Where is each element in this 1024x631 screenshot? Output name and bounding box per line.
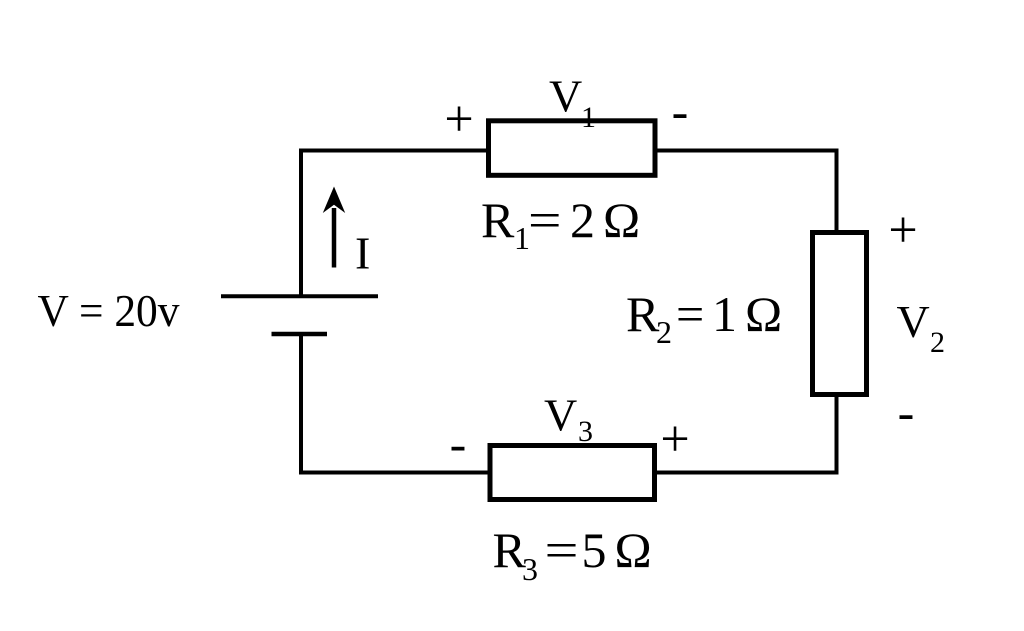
wire: left vertical upper (top wire down to battery + plate) (299, 149, 303, 297)
label: V1 (voltage across R1) (549, 71, 596, 135)
svg-text:Ω: Ω (615, 522, 652, 578)
svg-text:+: + (888, 202, 917, 259)
label: R3 = 5 ohm (493, 522, 652, 587)
svg-text:5: 5 (582, 522, 607, 578)
svg-text:I: I (355, 228, 370, 279)
svg-text:+: + (660, 411, 689, 468)
resistor R2 (right, 1 ohm) (813, 233, 867, 395)
svg-text:V = 20v: V = 20v (38, 285, 180, 336)
wire: right vertical lower (R2 down to bottom wire) (835, 396, 839, 475)
svg-text:V: V (544, 390, 577, 441)
svg-text:2: 2 (930, 326, 945, 359)
svg-text:Ω: Ω (603, 192, 640, 248)
label: V2 (voltage across R2) (897, 296, 946, 359)
resistor R1 (top, 2 ohm) (489, 121, 656, 176)
wire: bottom-left horizontal (battery bottom to R3) (299, 471, 491, 475)
svg-text:1: 1 (581, 101, 596, 134)
wire: right vertical upper (top wire down to R2) (835, 149, 839, 233)
svg-text:1: 1 (712, 286, 737, 342)
resistor R3 (bottom, 5 ohm) (490, 446, 655, 500)
svg-text:2: 2 (656, 314, 672, 350)
svg-text:-: - (898, 384, 915, 440)
wire: top-right horizontal (R1 to right branch) (654, 149, 839, 153)
svg-text:3: 3 (522, 551, 538, 587)
svg-text:-: - (450, 415, 467, 471)
svg-text:=: = (545, 522, 579, 578)
label: R1 = 2 ohm (481, 192, 640, 256)
wire: top-left horizontal (battery top to R1) (299, 149, 490, 153)
wire: bottom-right horizontal (R3 to right branch) (654, 471, 839, 475)
wire: left vertical lower (battery - plate down to bottom wire) (299, 334, 303, 475)
current arrow I (pointing up along left branch) (323, 187, 345, 268)
svg-text:2: 2 (570, 192, 595, 248)
svg-text:3: 3 (578, 415, 593, 448)
label: V3 (voltage across R3) (544, 390, 593, 449)
svg-text:+: + (444, 91, 473, 148)
label: R2 = 1 ohm (626, 286, 782, 350)
svg-text:=: = (676, 286, 704, 342)
svg-text:V: V (897, 296, 930, 347)
svg-text:Ω: Ω (745, 286, 782, 342)
svg-text:R: R (481, 192, 515, 248)
svg-text:-: - (672, 83, 689, 139)
svg-text:R: R (626, 286, 660, 342)
svg-text:=: = (528, 192, 562, 248)
svg-text:V: V (549, 71, 582, 122)
battery V (voltage source, long + plate and short - plate) (221, 296, 378, 334)
